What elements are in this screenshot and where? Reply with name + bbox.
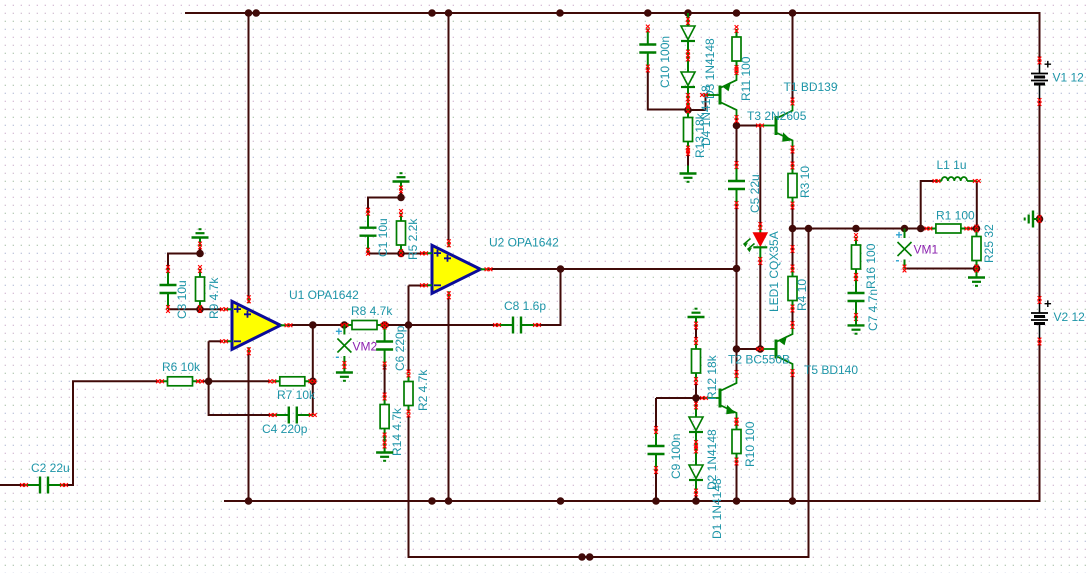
svg-text:R1 100: R1 100	[936, 209, 975, 223]
wire T3 emitter to R3	[792, 150, 794, 166]
wire T3 base node down to LED	[759, 126, 761, 227]
svg-text:U1 OPA1642: U1 OPA1642	[289, 288, 359, 302]
label R4	[795, 279, 809, 311]
junction 904,228	[901, 225, 909, 233]
junction 696,501	[692, 497, 700, 505]
svg-text:R14 4.7k: R14 4.7k	[390, 407, 404, 456]
voltmeter VM2	[335, 325, 351, 366]
junction 560,501	[557, 497, 565, 505]
junction 448,13	[445, 9, 453, 17]
label C7	[866, 289, 880, 331]
op-amp U1	[220, 295, 292, 355]
wire global feedback R2 to output node	[409, 229, 809, 558]
svg-text:C3 10u: C3 10u	[175, 280, 189, 319]
svg-text:U2 OPA1642: U2 OPA1642	[489, 236, 559, 250]
junction 432,13	[428, 9, 436, 17]
wire U1 positive supply drop	[248, 13, 250, 298]
svg-text:C2 22u: C2 22u	[31, 461, 70, 475]
junction 590,557	[586, 553, 594, 561]
junction 408,325	[405, 321, 413, 329]
label C2	[31, 461, 70, 475]
wire LED down to T5 base node	[759, 261, 761, 349]
wire R1 right to R25 node	[968, 228, 976, 230]
resistor R2	[404, 370, 413, 418]
wire T3 collector from top bus	[792, 13, 794, 102]
svg-text:LED1 CQX35A: LED1 CQX35A	[767, 231, 781, 312]
label C1	[376, 218, 390, 257]
wire U2 negative supply drop	[448, 298, 450, 501]
led LED1	[744, 222, 768, 265]
label R10	[743, 421, 757, 467]
wire L1 right leg	[976, 181, 978, 229]
junction 976,268	[973, 265, 981, 273]
wire C1 R5 bottom row to U2	[368, 252, 424, 254]
label C10	[658, 36, 672, 88]
svg-text:-: -	[335, 350, 339, 364]
wire C5 top from T3 base node	[736, 126, 738, 166]
junction 256,13	[252, 9, 260, 17]
wire C9 column lower	[655, 470, 657, 501]
ground at right rail	[1025, 211, 1042, 228]
capacitor C8	[493, 317, 541, 334]
svg-text:R3 10: R3 10	[798, 166, 812, 198]
svg-text:R8 4.7k: R8 4.7k	[351, 304, 393, 318]
label V2	[1054, 310, 1086, 324]
svg-text:R4 10: R4 10	[795, 279, 809, 311]
svg-text:R9 4.7k: R9 4.7k	[207, 277, 221, 319]
svg-text:R11 100: R11 100	[739, 56, 753, 101]
label T5	[804, 363, 858, 377]
svg-text:R7 10k: R7 10k	[277, 388, 316, 402]
label L1	[937, 158, 967, 172]
svg-text:D1 1N4148: D1 1N4148	[710, 478, 724, 539]
junction 401,254	[397, 250, 405, 258]
label VM1	[914, 243, 939, 257]
svg-text:+: +	[1044, 57, 1052, 72]
transistor T2	[700, 370, 738, 426]
junction 344,325	[341, 321, 349, 329]
resistor R9	[196, 265, 205, 313]
svg-text:V1 12: V1 12	[1053, 71, 1085, 85]
wire U1 feedback loop down to C4	[209, 341, 273, 415]
wire R5 ground stub	[400, 182, 402, 198]
transistor T5	[756, 321, 794, 377]
diode D4	[681, 72, 695, 110]
junction 560,13	[556, 9, 564, 17]
svg-text:C4 220p: C4 220p	[262, 422, 308, 436]
junction 792,501	[789, 497, 797, 505]
svg-text:C10 100n: C10 100n	[658, 36, 672, 88]
svg-text:VM1: VM1	[914, 243, 939, 257]
junction 432,501	[428, 497, 436, 505]
wire bottom negative bus	[224, 342, 1040, 502]
label C3	[175, 280, 189, 319]
ground below R25	[968, 265, 985, 286]
wire R3 to output node	[792, 206, 794, 229]
svg-text:R2 4.7k: R2 4.7k	[416, 369, 430, 411]
wire C6 to R14	[384, 366, 386, 397]
resistor R3	[788, 162, 797, 210]
label R25	[982, 224, 996, 263]
junction 656,501	[652, 497, 660, 505]
wire L1 branch	[921, 181, 937, 229]
wire R4 to T5 emitter	[792, 309, 794, 326]
resistor R13	[684, 106, 693, 156]
label D1	[710, 478, 724, 539]
label R1	[936, 209, 975, 223]
label U2	[489, 236, 559, 250]
resistor R5	[397, 209, 406, 257]
transistor T3	[756, 98, 794, 154]
wire R12 upper lead	[695, 326, 697, 341]
label U1	[289, 288, 359, 302]
label R6	[162, 360, 201, 374]
resistor R10	[732, 418, 741, 466]
resistor R6	[156, 377, 204, 386]
label R12	[705, 354, 719, 400]
capacitor C2	[20, 477, 68, 494]
label R14	[390, 407, 404, 456]
svg-text:+: +	[1044, 296, 1052, 311]
wire C2 to R6	[64, 381, 160, 485]
svg-text:R13 18k: R13 18k	[693, 112, 707, 158]
label R2	[416, 369, 430, 411]
capacitor C3	[160, 265, 177, 313]
transistor T1	[700, 67, 738, 123]
label C6	[393, 325, 407, 371]
junction 582,557	[578, 553, 586, 561]
wire T2 base node to diodes	[695, 398, 697, 406]
ground above C1 R5	[393, 173, 410, 193]
svg-text:C6 220p: C6 220p	[393, 325, 407, 371]
wire R13 top from diode node	[687, 110, 689, 118]
ground below VM2	[336, 361, 353, 381]
svg-text:T5 BD140: T5 BD140	[804, 363, 858, 377]
label LED1	[767, 231, 781, 312]
junction 736,126	[733, 122, 741, 130]
ground below R13	[680, 166, 697, 182]
svg-text:C7 4.7n: C7 4.7n	[866, 289, 880, 331]
svg-text:T3 2N2605: T3 2N2605	[747, 109, 807, 123]
resistor R4	[788, 245, 797, 312]
resistor R16	[852, 233, 861, 281]
capacitor C1	[360, 208, 377, 256]
wire U2 inv input row	[409, 285, 425, 287]
resistor R12	[692, 337, 701, 385]
junction 856,228	[852, 225, 860, 233]
label C5	[748, 174, 762, 213]
wire output row	[793, 228, 929, 230]
svg-text:+: +	[896, 228, 903, 242]
junction 688,110	[684, 106, 692, 114]
label R11	[739, 56, 753, 101]
label R7	[277, 388, 316, 402]
label R3	[798, 166, 812, 198]
label R5	[406, 218, 420, 260]
voltmeter VM1	[896, 228, 912, 272]
capacitor C6	[376, 322, 393, 370]
junction 696,398	[692, 394, 700, 402]
ground below C7	[848, 317, 865, 334]
wire U1 negative supply drop	[248, 352, 250, 501]
battery V1	[1031, 57, 1052, 106]
wire VM1 minus row	[905, 268, 977, 270]
junction 808,228	[805, 225, 813, 233]
junction 792,13	[789, 9, 797, 17]
wire C8 up to U2 output	[537, 269, 561, 325]
ground above R12	[688, 309, 705, 330]
wire U1 inv input row	[209, 340, 223, 342]
wire R12 to T2 base node	[695, 382, 697, 399]
junction 200,254	[196, 250, 204, 258]
junction 648,13	[644, 9, 652, 17]
wire C5 bottom to U2 out node to T2 collector node	[736, 205, 738, 374]
label R13	[693, 112, 707, 158]
wire U2 output row	[489, 268, 737, 270]
svg-text:V2 12: V2 12	[1054, 310, 1086, 324]
diode D2	[689, 402, 703, 465]
capacitor C7	[848, 273, 865, 321]
ground above C3 R9	[192, 229, 209, 249]
wire R8 to C8	[385, 324, 497, 326]
label D2	[705, 429, 719, 490]
resistor R11	[732, 25, 741, 73]
wire T5 collector to bottom bus	[792, 373, 794, 501]
svg-text:T2 BC550B: T2 BC550B	[728, 353, 790, 367]
inductor L1	[933, 177, 981, 183]
junction 401,198	[397, 194, 405, 202]
wire C3 R9 top row	[168, 254, 200, 270]
capacitor C9	[648, 426, 665, 474]
resistor R25	[972, 225, 981, 273]
junction 560,269	[557, 265, 565, 273]
wire C3 R9 bottom row to U1	[168, 308, 223, 310]
diode D1	[689, 465, 703, 496]
junction 760,349	[757, 345, 765, 353]
svg-text:C8 1.6p: C8 1.6p	[504, 299, 546, 313]
junction 736,268	[733, 265, 741, 273]
svg-text:R6 10k: R6 10k	[162, 360, 201, 374]
junction 248,501	[245, 497, 253, 505]
svg-text:C9 100n: C9 100n	[669, 434, 683, 479]
wire D1 to bottom bus	[695, 493, 697, 502]
svg-text:R10 100: R10 100	[743, 421, 757, 467]
svg-text:L1 1u: L1 1u	[937, 158, 967, 172]
ground below R14	[376, 437, 393, 461]
wire U2 positive supply drop	[448, 13, 450, 240]
svg-text:T1 BD139: T1 BD139	[784, 80, 838, 94]
junction 248,13	[245, 9, 253, 17]
svg-text:R5 2.2k: R5 2.2k	[406, 218, 420, 260]
op-amp U2	[420, 239, 492, 299]
wire C3 ground stub	[199, 238, 201, 254]
svg-text:C5 22u: C5 22u	[748, 174, 762, 213]
svg-text:+: +	[335, 325, 342, 339]
wire C1 R5 top row	[368, 198, 401, 213]
label T2	[728, 353, 790, 367]
wire C9 column upper	[655, 398, 657, 430]
label T1	[784, 80, 838, 94]
label R9	[207, 277, 221, 319]
resistor R1	[925, 224, 973, 233]
svg-text:R12 18k: R12 18k	[705, 354, 719, 400]
wire top supply bus	[185, 13, 1040, 61]
wire R13 lower lead	[687, 152, 689, 166]
label T3	[747, 109, 807, 123]
junction 921,228	[917, 225, 925, 233]
label D4	[699, 85, 713, 146]
junction 448,501	[445, 497, 453, 505]
label VM2	[353, 340, 378, 354]
label C4	[262, 422, 308, 436]
junction 313,325	[309, 321, 317, 329]
resistor R14	[380, 393, 389, 441]
resistor R8	[341, 321, 389, 330]
wire input left to C2	[0, 484, 24, 486]
svg-text:C1 10u: C1 10u	[376, 218, 390, 257]
svg-text:R25 32: R25 32	[982, 224, 996, 263]
junction 209,381	[205, 378, 213, 386]
wire right rail V1 to ground tap to V2	[1039, 102, 1041, 300]
svg-text:VM2: VM2	[353, 340, 378, 354]
wire U2 inv node down to R2	[408, 286, 410, 374]
diode D3	[681, 13, 695, 72]
wire R6 to R7	[201, 380, 272, 382]
wire T3 base row	[737, 125, 761, 127]
wire C9 top row to T2 base node	[656, 397, 704, 399]
wire U1 output junction down	[312, 325, 314, 415]
junction 385,325	[381, 321, 389, 329]
svg-text:R16 100: R16 100	[864, 243, 878, 289]
label V1	[1053, 71, 1085, 85]
wire C10 down to diode node	[648, 69, 688, 110]
label C9	[669, 434, 683, 479]
junction 736,501	[733, 497, 741, 505]
label R16	[864, 243, 878, 289]
label R8	[351, 304, 393, 318]
wire T1 collector to T3 base node	[736, 118, 738, 126]
junction 736,13	[733, 9, 741, 17]
wire T2 emitter R10 to bottom bus	[736, 462, 738, 502]
junction 688,13	[684, 9, 692, 17]
label D3	[703, 38, 717, 99]
junction 736,349	[733, 345, 741, 353]
junction 313,381	[309, 378, 317, 386]
battery V2	[1031, 296, 1052, 345]
wire U1 output to R8 node	[289, 324, 345, 326]
junction 976,228	[973, 225, 981, 233]
junction 200,309	[196, 306, 204, 314]
junction 1040,219	[1036, 215, 1044, 223]
capacitor C10	[639, 25, 656, 73]
capacitor C5	[728, 161, 745, 209]
junction 792,228	[789, 225, 797, 233]
wire T2 collector node row to T5 base	[737, 348, 761, 350]
svg-text:-: -	[896, 253, 900, 267]
wire output node down to R4	[792, 229, 794, 269]
wire diode node to T1 base	[688, 95, 706, 110]
resistor R7	[268, 377, 316, 386]
label C8	[504, 299, 546, 313]
capacitor C4	[269, 407, 317, 424]
